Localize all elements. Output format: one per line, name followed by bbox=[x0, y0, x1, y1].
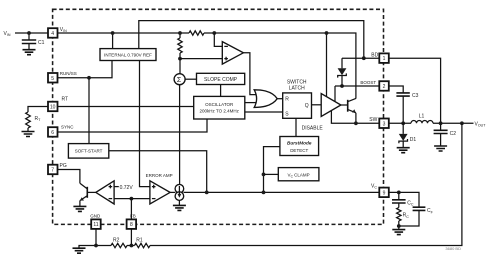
svg-text:C3: C3 bbox=[412, 93, 419, 99]
svg-text:10: 10 bbox=[50, 105, 56, 111]
diode D1 catch schottky bbox=[402, 123, 404, 134]
switch latch box bbox=[283, 93, 312, 118]
summer sigma bbox=[174, 74, 185, 85]
wire divider to summer bbox=[179, 59, 181, 74]
svg-text:0.72V: 0.72V bbox=[120, 185, 134, 191]
wire VC external bbox=[389, 192, 419, 207]
wire GND pin to rail bbox=[95, 229, 97, 246]
pin 2 BOOST bbox=[379, 81, 389, 91]
pin 9 VC bbox=[379, 188, 389, 198]
svg-text:R2: R2 bbox=[113, 238, 120, 244]
wire output stage to ground bbox=[178, 200, 180, 205]
wire oscillator to OR gate bbox=[245, 102, 258, 104]
pin 10 RT bbox=[48, 102, 58, 112]
svg-text:200kHz TO 2.4MHz: 200kHz TO 2.4MHz bbox=[200, 109, 240, 114]
wire FB pin to rail bbox=[130, 229, 132, 246]
svg-text:SW: SW bbox=[369, 117, 377, 123]
wire FB pin to amps bbox=[130, 199, 132, 220]
wire REF top rail to BD line bbox=[139, 21, 364, 59]
transistor Q1 bbox=[347, 100, 349, 112]
resistor R1 bbox=[135, 243, 151, 247]
wire slope comp to oscillator bbox=[220, 85, 222, 97]
svg-text:D1: D1 bbox=[410, 137, 417, 143]
wire BOOST internal bbox=[335, 85, 379, 87]
svg-text:RT: RT bbox=[62, 97, 69, 103]
wire sense node to comparator minus bbox=[214, 33, 222, 46]
wire soft-start to VC bbox=[109, 151, 207, 193]
pin 11 GND bbox=[91, 219, 101, 229]
ground bbox=[73, 248, 86, 253]
svg-text:1: 1 bbox=[383, 56, 386, 62]
svg-text:C1: C1 bbox=[38, 40, 45, 46]
node VIN junction at C1 bbox=[27, 31, 31, 35]
wire PG pin to collector bbox=[58, 170, 80, 184]
svg-text:2: 2 bbox=[383, 84, 386, 90]
wire divider to comparator plus bbox=[180, 58, 222, 60]
diode boost schottky bbox=[341, 58, 343, 68]
wire comparator output to OR gate bbox=[243, 53, 258, 95]
wire RUN/SS to SOFT-START bbox=[88, 78, 90, 144]
svg-text:INTERNAL 0.790V REF: INTERNAL 0.790V REF bbox=[104, 53, 152, 58]
internal reference box bbox=[100, 49, 156, 61]
ground bbox=[23, 50, 36, 55]
wire BD external to output node bbox=[389, 58, 441, 123]
svg-text:4: 4 bbox=[51, 31, 54, 37]
wire OR to latch R bbox=[277, 98, 283, 100]
svg-text:5: 5 bbox=[51, 76, 54, 82]
ground bbox=[22, 132, 35, 137]
ground bbox=[392, 230, 405, 235]
IC dashed boundary bbox=[53, 9, 384, 224]
wire VIN external lead bbox=[15, 32, 48, 34]
wire driver to base bbox=[341, 104, 348, 106]
wire oscillator to latch S bbox=[245, 111, 283, 113]
svg-text:LATCH: LATCH bbox=[289, 86, 305, 92]
wire burst mode to VC bbox=[264, 147, 280, 193]
burst mode detect box bbox=[280, 137, 319, 156]
capacitor CF bbox=[413, 207, 426, 210]
wire SYNC to oscillator bbox=[58, 119, 208, 132]
node RUN/SS junction bbox=[87, 76, 91, 80]
svg-text:BOOST: BOOST bbox=[360, 80, 376, 85]
wire VIN to driver bbox=[326, 33, 328, 97]
resistor R2 bbox=[111, 243, 127, 247]
pin 8 FB bbox=[127, 219, 137, 229]
wire output rail bbox=[433, 122, 474, 124]
wire RT external bbox=[28, 107, 48, 113]
svg-text:SLOPE COMP: SLOPE COMP bbox=[204, 77, 238, 83]
wire SW external bbox=[389, 122, 411, 124]
svg-text:BD: BD bbox=[371, 53, 378, 59]
svg-text:L1: L1 bbox=[419, 114, 425, 120]
svg-text:GND: GND bbox=[90, 214, 101, 219]
capacitor CC bbox=[398, 192, 400, 199]
svg-text:9: 9 bbox=[383, 190, 386, 196]
svg-text:3680 BD: 3680 BD bbox=[445, 246, 461, 251]
resistor RC bbox=[398, 203, 400, 208]
wire boost to driver bbox=[334, 86, 336, 102]
ground bbox=[173, 205, 186, 210]
pin 7 PG bbox=[48, 165, 58, 175]
svg-text:PG: PG bbox=[60, 163, 67, 169]
svg-text:7: 7 bbox=[51, 168, 54, 174]
wire RT to oscillator bbox=[58, 106, 194, 108]
wire FB divider from VOUT bbox=[150, 123, 462, 245]
capacitor C1 bbox=[28, 33, 30, 40]
oscillator box bbox=[194, 96, 245, 119]
resistor divider to comparator bbox=[179, 33, 181, 59]
OR gate bbox=[254, 90, 277, 108]
pin 5 RUN/SS bbox=[48, 73, 58, 83]
svg-text:FB: FB bbox=[130, 214, 136, 219]
wire error amp to output stage bbox=[170, 191, 175, 193]
wire VIN to REF top bbox=[112, 33, 114, 49]
inductor L1 bbox=[411, 121, 433, 124]
wire RUN/SS to REF bottom bbox=[58, 61, 113, 78]
wire BD internal bbox=[342, 57, 379, 59]
ground bbox=[397, 148, 410, 153]
wire BOOST external bbox=[389, 86, 404, 93]
ground bbox=[73, 206, 86, 211]
svg-text:BurstMode: BurstMode bbox=[287, 141, 312, 146]
wire sigma to error amp output stage bbox=[179, 85, 181, 185]
node BD rail junction bbox=[362, 56, 366, 60]
svg-text:R: R bbox=[285, 97, 289, 103]
transistor Q2 power good bbox=[86, 187, 88, 198]
node 0.72V reference bbox=[114, 186, 119, 188]
capacitor C2 bbox=[440, 123, 442, 130]
wire latch Q to driver bbox=[312, 104, 322, 106]
VC clamp box bbox=[278, 168, 319, 181]
op-amp error amp bbox=[150, 181, 170, 204]
svg-text:OSCILLATOR: OSCILLATOR bbox=[205, 102, 234, 107]
capacitor C3 bbox=[396, 93, 409, 96]
svg-text:11: 11 bbox=[93, 222, 98, 228]
svg-text:6: 6 bbox=[51, 130, 54, 136]
svg-text:RUN/SS: RUN/SS bbox=[60, 71, 77, 76]
svg-text:3: 3 bbox=[383, 121, 386, 127]
op-amp PG comparator bbox=[96, 181, 114, 204]
wire bottom rail bbox=[79, 246, 135, 249]
wire sigma to slope comp bbox=[185, 78, 196, 80]
svg-text:ERROR AMP: ERROR AMP bbox=[146, 173, 173, 178]
svg-text:DETECT: DETECT bbox=[290, 148, 308, 153]
resistor current sense bbox=[189, 31, 204, 35]
svg-text:DISABLE: DISABLE bbox=[302, 125, 324, 131]
svg-text:Σ: Σ bbox=[177, 77, 182, 84]
op-amp driver bbox=[321, 94, 341, 117]
wire VIN rail to transistor collector bbox=[58, 33, 356, 99]
wire latch to burst mode bbox=[295, 118, 297, 136]
wire PG comp to transistor base bbox=[87, 191, 96, 193]
wire VC clamp to VC bbox=[264, 173, 279, 175]
soft-start box bbox=[68, 144, 108, 159]
svg-text:R1: R1 bbox=[136, 238, 143, 244]
svg-text:SWITCH: SWITCH bbox=[287, 80, 307, 86]
op-amp current comparator bbox=[222, 42, 243, 65]
svg-text:SYNC: SYNC bbox=[61, 125, 74, 130]
pin 1 BD bbox=[379, 53, 389, 63]
ground bbox=[434, 146, 447, 151]
wire REF to error amp + input bbox=[140, 61, 150, 187]
wire FB node bbox=[114, 198, 150, 200]
svg-text:Q: Q bbox=[305, 103, 309, 109]
pin 4 VIN bbox=[48, 28, 58, 38]
current source output stage bbox=[175, 184, 184, 193]
resistor RT bbox=[26, 112, 31, 128]
svg-text:SOFT-START: SOFT-START bbox=[75, 149, 103, 154]
wire VC rail bbox=[184, 191, 380, 193]
node VIN-REF junction bbox=[111, 31, 115, 35]
svg-text:C2: C2 bbox=[450, 131, 457, 137]
wire SW rail bbox=[331, 111, 379, 124]
slope comp box bbox=[197, 73, 245, 84]
svg-text:8: 8 bbox=[130, 222, 133, 228]
pin 3 SW bbox=[379, 119, 389, 129]
pin 6 SYNC bbox=[48, 127, 58, 137]
